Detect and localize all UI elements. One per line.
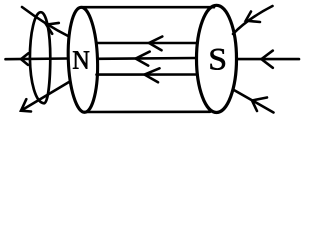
arrowhead on upper-left diagonal xyxy=(46,23,59,34)
label N (serif glyph as path) xyxy=(73,51,89,68)
internal field line 1 (top) xyxy=(97,42,198,45)
external field line, upper-right diagonal xyxy=(233,6,273,34)
arrowhead on upper-right diagonal xyxy=(246,12,260,23)
external field line, left horizontal xyxy=(6,57,69,60)
arrowhead on right horizontal line xyxy=(261,51,272,68)
external field line, lower-right diagonal xyxy=(233,90,274,113)
arrowhead on lower-left diagonal xyxy=(21,99,31,111)
magnet N-pole face ellipse xyxy=(66,7,99,113)
coil ring around left end of magnet xyxy=(30,12,50,103)
external field line, upper-left diagonal xyxy=(22,7,69,37)
external field line, right horizontal xyxy=(237,58,300,61)
external field line, lower-left diagonal xyxy=(21,82,69,111)
arrowhead on internal line 1 xyxy=(149,37,162,51)
label S (serif glyph as path) xyxy=(211,49,226,70)
arrowhead on left horizontal line xyxy=(21,53,28,65)
magnet S-pole face ellipse xyxy=(197,5,237,112)
arrowhead on internal line 2 xyxy=(136,52,150,66)
magnet cylinder top edge xyxy=(82,6,214,9)
arrowhead on internal line 3 xyxy=(145,68,160,82)
internal field line 2 (middle) xyxy=(98,57,197,60)
internal field line 3 (bottom) xyxy=(97,73,198,76)
arrowhead on lower-right diagonal xyxy=(252,98,267,112)
magnet cylinder bottom edge xyxy=(84,111,210,114)
